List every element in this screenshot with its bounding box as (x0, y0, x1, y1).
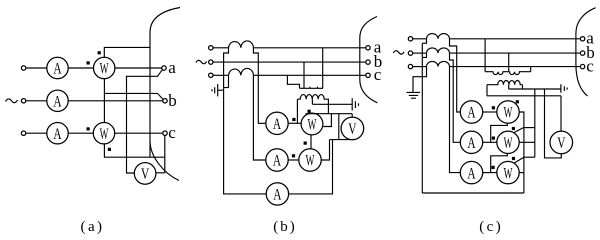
wire CT1 secondary left tap (c) (422, 39, 426, 43)
CT1 primary winding humps (c) (427, 34, 450, 39)
polarity dot W2 current coil (c) (492, 137, 495, 140)
svg-text:A: A (273, 153, 282, 170)
terminal left phase a (b) (209, 46, 213, 50)
wire bottom return rail (c) (422, 192, 524, 194)
polarity dot W2 current coil (b) (292, 154, 295, 157)
ground 2 symbol (b) pointing right (352, 98, 358, 110)
wattmeter W1 (c) (497, 101, 519, 123)
wattmeter W2 (c) (497, 131, 519, 153)
arc to load (circuit b) (360, 17, 378, 103)
wire CT2 secondary left tap to common (224, 75, 229, 87)
svg-text:(a): (a) (81, 219, 103, 235)
ammeter A3 (47, 123, 68, 144)
wire V bottom riser (338, 114, 340, 140)
svg-text:A: A (53, 61, 62, 78)
polarity dot W2 voltage coil (c) (512, 127, 515, 130)
svg-text:A: A (53, 126, 62, 143)
wire bus vertical below arc to node (149, 141, 151, 157)
polarity dot W1 current coil (c) (492, 106, 495, 109)
wire phase a (c) left (413, 38, 427, 40)
terminal c right (b) (366, 73, 370, 77)
wire V top riser (c) (560, 96, 562, 131)
svg-text:A: A (53, 93, 62, 110)
wire PT secondary right lead (325, 99, 328, 114)
wire phase b (b) (213, 61, 365, 63)
terminal left phase c (b) (209, 73, 213, 77)
wire PT primary lead from phase c (c) (530, 67, 532, 72)
AC source symbol ~ (circuit a) (6, 99, 18, 103)
wattmeter W1 (94, 57, 115, 78)
wire W2 current out (c) (519, 141, 535, 143)
svg-text:A: A (467, 135, 476, 152)
wire A1 to W1 (288, 122, 301, 124)
wire phase b (c) right (450, 52, 581, 54)
polarity dot W1 current coil (b) (292, 118, 295, 121)
svg-text:V: V (348, 121, 357, 138)
polarity dot W1 voltage coil (c) (516, 100, 519, 103)
arc to load (circuit c) (576, 8, 596, 96)
ground 1 symbol (c) pointing down (407, 92, 421, 98)
wire phase a segment 1 (26, 67, 47, 69)
ammeter A2 (47, 90, 68, 111)
ammeter A2 (c) (460, 131, 482, 153)
PT primary winding (c) (485, 72, 531, 75)
wattmeter W2 (93, 123, 114, 144)
svg-text:(c): (c) (479, 219, 501, 235)
svg-text:W: W (100, 61, 109, 78)
wire phase c (b) right (253, 74, 365, 76)
svg-text:c: c (374, 65, 382, 84)
wire V top stub (351, 114, 353, 118)
terminal left phase b (c) (408, 51, 412, 55)
terminal b right (163, 99, 167, 103)
wire CT2 secondary right tap to A2 (253, 75, 265, 160)
wire A2 to W2 (288, 159, 299, 161)
ground 1 symbol (b) pointing left (212, 84, 218, 96)
wire A2 to W2 (c) (483, 141, 497, 143)
wire CT common vertical (c) (421, 43, 423, 193)
wire PT primary lead from phase a (322, 48, 324, 89)
terminal b right (c) (580, 51, 584, 55)
wire phase a segment 3 (115, 67, 162, 69)
CT2 primary winding humps (229, 68, 254, 75)
svg-text:(b): (b) (273, 219, 295, 235)
wire PT secondary left lead (c) (486, 85, 488, 96)
wire link bar upper (c) (524, 127, 535, 129)
AC source symbol ~ (circuit b) (196, 60, 207, 63)
wattmeter W3 (c) (497, 161, 519, 183)
terminal left phase c (c) (408, 64, 412, 68)
PT secondary winding (c) (487, 80, 523, 84)
wire phase b (c) left (413, 52, 427, 54)
wire PT secondary right lead (c) (522, 85, 524, 89)
wire phase b segment 2 (68, 100, 162, 102)
wire PT primary lead from phase b (c) (508, 53, 510, 72)
wire phase c (b) left (213, 74, 228, 76)
ammeter A1 (47, 57, 68, 78)
wire A3 output riser (289, 140, 333, 194)
wire phase c segment 1 (26, 132, 47, 134)
wire phase a (b) left (213, 47, 228, 49)
wire A1 to W1 (c) (483, 111, 497, 113)
polarity dot W2 current coil (87, 127, 90, 130)
svg-text:W: W (308, 117, 317, 134)
wire PT secondary left lead (296, 99, 298, 123)
terminal a right (c) (580, 37, 584, 41)
polarity dot W1 voltage coil (98, 51, 101, 54)
wire W1 current out jog (323, 114, 331, 127)
voltmeter V (b) (341, 117, 364, 140)
ammeter A2 (b) (266, 149, 288, 171)
wire CT2 secondary right tap to A2 (c) (450, 53, 461, 142)
ammeter A1 (b) (266, 112, 288, 134)
wire CT3 secondary right tap to A3 (c) (450, 67, 461, 173)
terminal left phase c (21, 131, 25, 135)
wattmeter W2 (b) (299, 149, 321, 171)
svg-text:a: a (168, 58, 176, 77)
CT3 primary winding humps (c) (427, 61, 450, 66)
ammeter A1 (c) (460, 101, 482, 123)
CT2 primary winding humps (c) (427, 48, 450, 53)
svg-text:V: V (557, 135, 566, 152)
terminal c right (163, 131, 167, 135)
wire phase c segment 3 (115, 132, 163, 134)
wire PT secondary centre tap (c) (508, 85, 510, 89)
PT secondary winding coil (297, 95, 325, 100)
wire branch to terminal b (104, 93, 163, 99)
wire diagonal to W3 top (c) (514, 157, 524, 163)
wattmeter W1 (b) (301, 113, 323, 135)
terminal a right (162, 66, 166, 70)
wire phase b segment 1 (26, 100, 47, 102)
wire W2 bottom dogleg to W3 left (c) (491, 154, 508, 173)
wire phase a segment 2 (68, 67, 93, 69)
voltmeter V (134, 163, 156, 185)
wire CT1 secondary right tap to A1 (253, 48, 265, 124)
wire V bottom to bus1 (c) (545, 89, 562, 158)
wire terminal c down to voltmeter (156, 136, 165, 173)
voltmeter V (c) (550, 131, 573, 154)
wire CT3 secondary left tap to ground (c) (413, 67, 427, 93)
polarity dot W1 current coil (87, 61, 90, 64)
polarity dot W3 current coil (c) (492, 166, 495, 169)
svg-text:W: W (100, 126, 109, 143)
ground 2 symbol (c) pointing right (561, 84, 567, 93)
wire W1 bottom dogleg to W2 left (c) (491, 123, 508, 142)
terminal left phase b (21, 99, 25, 103)
arc to load (circuit a) (150, 8, 180, 181)
wire phase c segment 2 (68, 132, 93, 134)
PT primary winding bar (300, 87, 324, 89)
svg-text:A: A (273, 116, 282, 133)
terminal b right (b) (366, 60, 370, 64)
svg-text:A: A (467, 165, 476, 182)
terminal a right (b) (366, 46, 370, 50)
svg-text:W: W (504, 135, 513, 152)
wire phase a (b) right (253, 47, 365, 49)
wire W2 current out jog (321, 140, 329, 160)
svg-text:c: c (586, 56, 594, 75)
polarity dot W3 voltage coil (c) (512, 157, 515, 160)
wire W1 voltage link W1-W2 (310, 135, 312, 149)
svg-text:A: A (467, 105, 476, 122)
svg-text:b: b (168, 91, 177, 110)
wire CT2 secondary left tap (c) (422, 53, 426, 57)
wire PT primary lead from phase a (c) (484, 39, 486, 72)
wire link bar lower (c) (524, 156, 535, 158)
svg-text:W: W (306, 153, 315, 170)
terminal c right (c) (580, 64, 584, 68)
svg-text:W: W (504, 105, 513, 122)
wire PT primary lead from phase c (287, 75, 299, 88)
svg-text:V: V (141, 166, 150, 183)
wire bus2 (c) (487, 95, 561, 97)
wire phase c (c) right (450, 66, 581, 68)
wire W2 bottom to common node (104, 144, 164, 157)
ground 1 lead (b) (218, 89, 224, 91)
terminal left phase a (21, 66, 25, 70)
wire PT secondary centre tap rail (312, 99, 352, 104)
CT1 primary winding humps (229, 41, 254, 48)
wire V bottom rail (330, 139, 353, 141)
wire CT1 secondary right tap to A1 (c) (450, 39, 461, 112)
wire phase a (c) right (450, 38, 581, 40)
polarity dot W2 voltage coil (108, 148, 111, 151)
wire W1 top rail (306, 113, 353, 115)
ammeter A3 (b) (266, 183, 288, 205)
wire bus1 to ground2 (c) (509, 88, 561, 90)
wire W1 voltage coil top to bus (104, 47, 150, 57)
wire W1 bottom to W2 top (103, 79, 105, 123)
polarity dot W2 voltage coil (b) (304, 142, 307, 145)
svg-text:c: c (168, 123, 176, 142)
svg-text:A: A (273, 187, 282, 204)
wire phase c (c) left (413, 66, 427, 68)
AC source symbol ~ (circuit c) (393, 51, 404, 54)
wire CT1 secondary left tap to common (224, 48, 267, 194)
wire W3 current out (c) (519, 172, 524, 174)
wire riser R1 (c) (534, 89, 536, 157)
polarity dot W1 voltage coil (b) (308, 110, 311, 113)
svg-text:W: W (504, 165, 513, 182)
wire PT primary lead from phase b (303, 62, 305, 88)
terminal left phase a (c) (408, 37, 412, 41)
wire A3 to W3 (c) (483, 172, 497, 174)
wire diagonal to W2 top (c) (513, 127, 524, 132)
terminal left phase b (b) (209, 60, 213, 64)
ammeter A3 (c) (460, 161, 482, 183)
wire W1 current out descender (c) (519, 112, 524, 193)
wire branch to terminal a (127, 70, 163, 173)
